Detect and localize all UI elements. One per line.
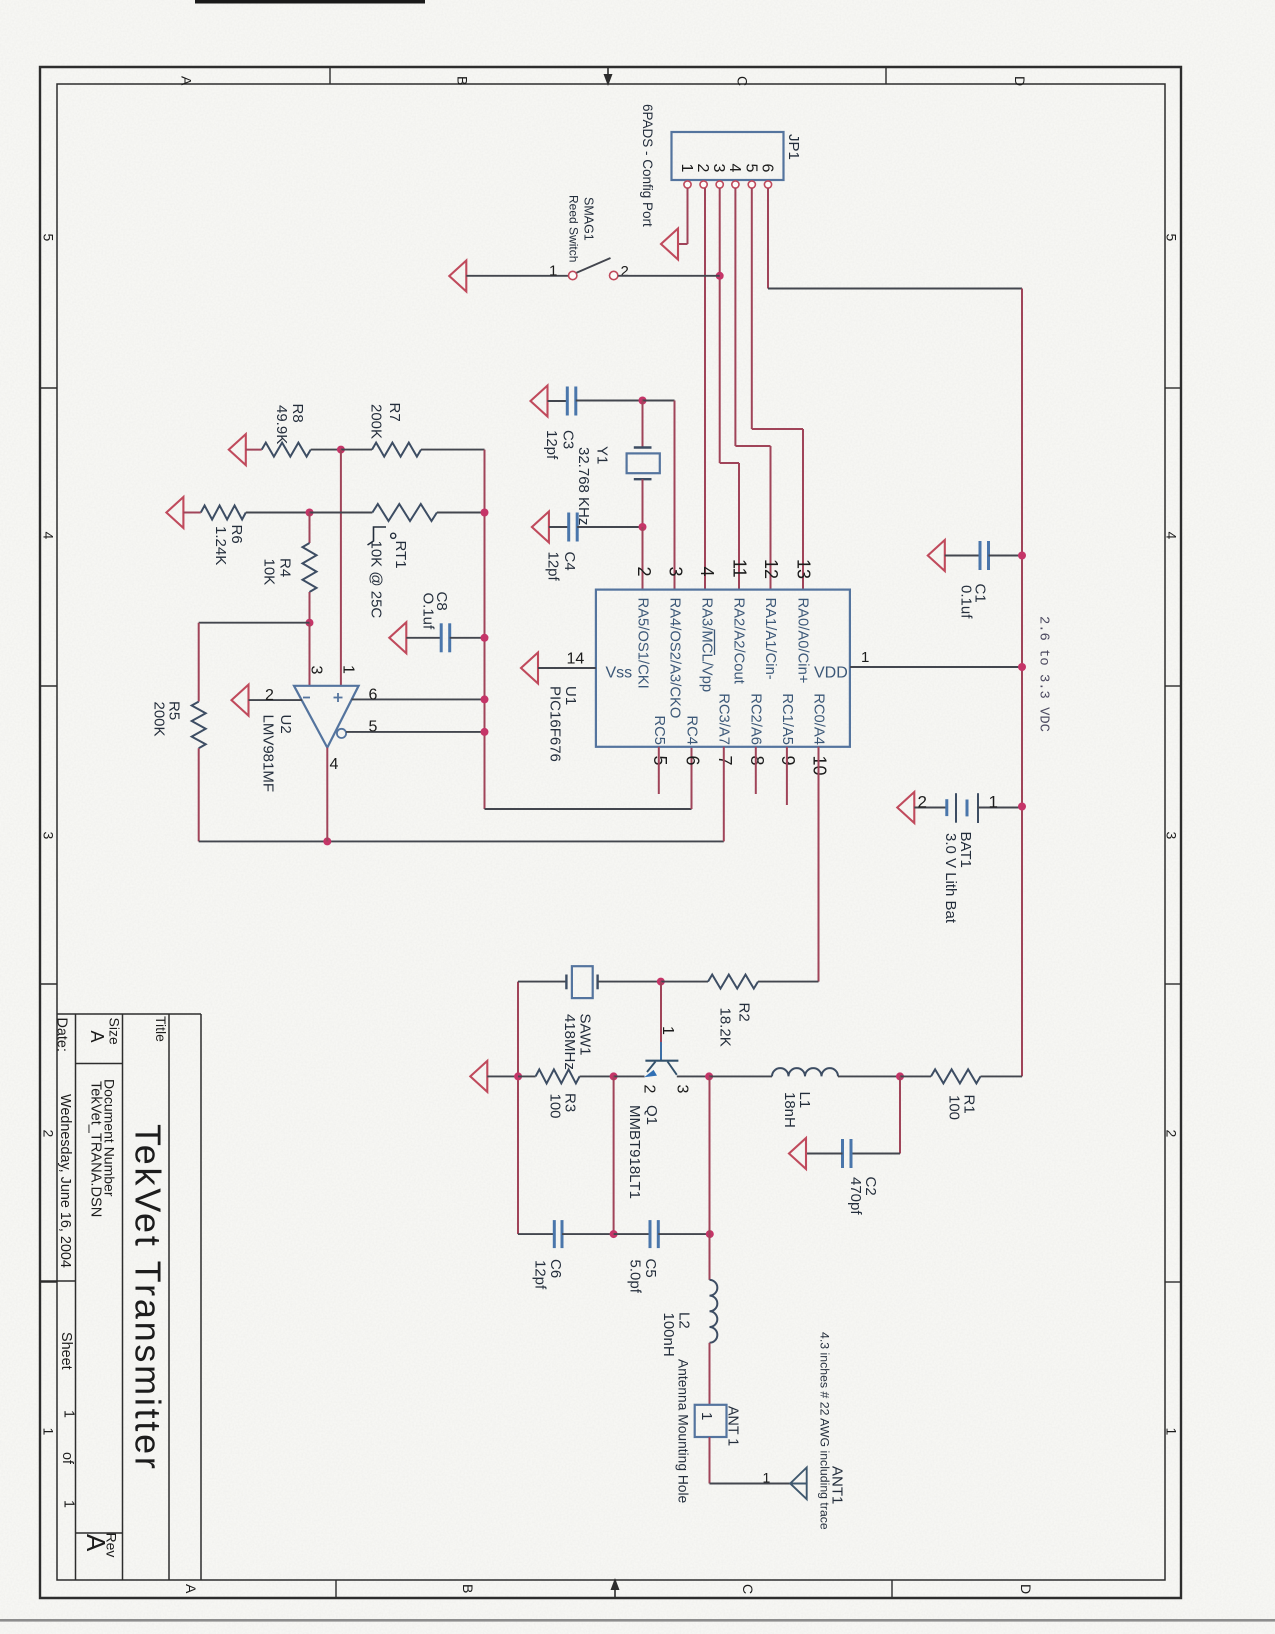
svg-text:C5: C5 (642, 1259, 659, 1278)
capacitor C4 12pf (549, 526, 569, 528)
svg-text:RC4: RC4 (684, 715, 700, 745)
resistor R7 200K (341, 449, 372, 451)
svg-text:100: 100 (946, 1095, 963, 1120)
ground U2 pin2 (232, 685, 249, 716)
svg-text:3.0 V Lith Bat: 3.0 V Lith Bat (942, 833, 959, 924)
node C8 on rail (481, 634, 489, 642)
svg-text:5: 5 (369, 719, 378, 736)
svg-text:2: 2 (694, 164, 711, 173)
svg-text:4.3 inches # 22 AWG including: 4.3 inches # 22 AWG including trace (818, 1332, 832, 1530)
capacitor C6 12pf (518, 1233, 554, 1235)
svg-text:5: 5 (1164, 234, 1180, 242)
svg-text:R2: R2 (736, 1003, 753, 1022)
capacitor C5 5.0pf (614, 1233, 650, 1235)
op-amp U2 LMV981MF (294, 686, 359, 748)
wire C4 node to U1 pin2 (642, 527, 644, 590)
svg-text:18.2K: 18.2K (717, 1008, 734, 1047)
svg-text:R6: R6 (228, 525, 245, 544)
svg-text:D: D (1012, 76, 1028, 86)
wire JP1 pin4 to U1 pin12 (734, 188, 736, 446)
node reed switch / JP1 pin3 junction (716, 272, 724, 280)
U1 pin8 stub (755, 747, 757, 794)
svg-text:1: 1 (678, 164, 695, 173)
node ground/SAW left rail (514, 1072, 522, 1080)
wire node to Q1 emitter (614, 1075, 645, 1077)
node Y1 bottom / C4 (639, 523, 647, 531)
wire feedback bottom to U1 pin7 (199, 840, 724, 842)
ground C8 (389, 622, 406, 653)
svg-text:12: 12 (761, 559, 781, 579)
svg-text:5: 5 (743, 164, 760, 173)
svg-text:3: 3 (710, 164, 727, 173)
resistor R1 100 (900, 1075, 931, 1077)
svg-text:10K @ 25C: 10K @ 25C (368, 541, 385, 619)
svg-text:RA1/A1/Cin-: RA1/A1/Cin- (762, 598, 778, 680)
svg-text:1: 1 (763, 1470, 771, 1486)
svg-text:2: 2 (621, 263, 629, 280)
svg-text:1: 1 (340, 665, 357, 674)
wire rail to U1 pin6 (RC4) (485, 808, 692, 810)
svg-text:6: 6 (759, 164, 776, 173)
resistor R6 1.24K (183, 512, 200, 514)
wire analog rail x485 (484, 450, 486, 809)
svg-text:ANT 1: ANT 1 (725, 1406, 741, 1446)
svg-text:A: A (179, 76, 195, 86)
svg-text:470pf: 470pf (847, 1177, 864, 1215)
wire U2 pin2 (249, 699, 303, 701)
svg-text:3: 3 (1164, 832, 1180, 840)
bottom alignment arrow (611, 1578, 620, 1590)
title block grid (40, 1014, 201, 1580)
svg-text:A: A (81, 1534, 111, 1552)
svg-text:1: 1 (61, 1500, 77, 1508)
svg-text:2: 2 (41, 1130, 57, 1138)
svg-text:A: A (87, 1031, 107, 1043)
ground C1 (928, 540, 945, 571)
capacitor C3 12pf (548, 400, 568, 402)
wire JP1 pin6 to VDD rail (767, 188, 769, 289)
wire ground to SMAG1 pin1 (466, 275, 568, 277)
svg-text:1: 1 (698, 1412, 715, 1420)
svg-text:418MHz: 418MHz (561, 1014, 578, 1070)
svg-text:B: B (460, 1584, 476, 1593)
ground JP1 pin1 (661, 229, 678, 260)
svg-text:1: 1 (659, 1026, 676, 1035)
svg-text:1: 1 (41, 1428, 57, 1436)
switch SMAG1 reed switch (569, 271, 577, 279)
wire node to U2 pin3 (309, 623, 311, 686)
IC U1 PIC16F676 (596, 590, 850, 747)
wire JP1 pin3 to U1 pin11 (719, 188, 721, 463)
svg-text:RC1/A5: RC1/A5 (779, 693, 795, 745)
svg-text:L2: L2 (676, 1312, 693, 1329)
wire SMAG1 pin2 to JP1 pin3 net (618, 275, 720, 277)
svg-text:MMBT918LT1: MMBT918LT1 (626, 1105, 643, 1199)
wire Vss pin14 (538, 667, 596, 669)
antenna pad ANT 1 (695, 1405, 727, 1437)
node U2 pin5 on rail (481, 728, 489, 736)
svg-text:RC3/A7: RC3/A7 (716, 693, 732, 745)
svg-text:RC5: RC5 (651, 715, 667, 745)
svg-text:Y1: Y1 (594, 446, 611, 464)
capacitor C8 O.1uf (406, 637, 441, 639)
svg-text:9: 9 (778, 756, 798, 766)
svg-text:R8: R8 (289, 404, 306, 423)
svg-text:5: 5 (650, 756, 670, 766)
node BAT1 on rail (1018, 803, 1026, 811)
svg-text:Title: Title (153, 1016, 169, 1042)
svg-text:C6: C6 (547, 1259, 564, 1278)
wire U2 pin4 (326, 748, 328, 842)
wire JP1 pin5 to U1 pin13 (751, 188, 753, 429)
ground Vss pin14 (521, 653, 538, 684)
svg-text:5: 5 (41, 234, 57, 242)
svg-text:2: 2 (641, 1085, 658, 1094)
svg-text:2.6 to 3.3 VDC: 2.6 to 3.3 VDC (1036, 616, 1051, 732)
wire VDD pin1 to rail (850, 666, 1022, 668)
svg-text:R4: R4 (277, 558, 294, 577)
svg-text:U1: U1 (562, 686, 579, 705)
svg-text:12pf: 12pf (543, 430, 560, 460)
svg-text:3: 3 (674, 1085, 691, 1094)
svg-text:Q1: Q1 (643, 1105, 660, 1125)
wire Q1 collector to L1 node (677, 1075, 709, 1077)
svg-text:of: of (59, 1452, 75, 1465)
svg-text:C3: C3 (560, 430, 577, 449)
svg-text:1.24K: 1.24K (212, 526, 229, 565)
svg-text:100: 100 (547, 1094, 564, 1119)
U1 pin10 wire to R2 (818, 747, 820, 982)
svg-text:4: 4 (726, 164, 743, 173)
ground C2 (789, 1138, 806, 1169)
U1 pin9 stub (786, 747, 788, 805)
svg-text:6: 6 (683, 756, 703, 766)
U1 pin7 wire to feedback (723, 747, 725, 842)
svg-text:49.9K: 49.9K (273, 405, 290, 444)
svg-text:Date:: Date: (54, 1018, 70, 1052)
svg-text:RA4/OS2/A3/CKO: RA4/OS2/A3/CKO (667, 598, 683, 719)
ground R8 (229, 434, 246, 465)
node C6/C5 (610, 1230, 618, 1238)
node C3 / Y1 top (639, 397, 647, 405)
wire JP1 pin1 to ground (687, 188, 689, 244)
svg-text:200K: 200K (368, 404, 385, 439)
svg-text:LMV981MF: LMV981MF (260, 715, 277, 793)
svg-text:4: 4 (697, 567, 717, 577)
capacitor C1 0.1uf (945, 555, 980, 557)
svg-text:0.1uf: 0.1uf (958, 585, 975, 619)
svg-text:6: 6 (369, 687, 378, 704)
svg-text:TekVet_TRANA.DSN: TekVet_TRANA.DSN (88, 1081, 104, 1217)
svg-text:4: 4 (1164, 532, 1180, 540)
node R8/R7/U2 pin1 (337, 446, 345, 454)
svg-text:10K: 10K (261, 559, 278, 586)
svg-text:RT1: RT1 (392, 541, 409, 569)
svg-text:Vss: Vss (606, 665, 633, 682)
svg-text:2: 2 (634, 567, 654, 577)
node C1 on rail (1018, 552, 1026, 560)
transistor Q1 MMBT918LT1 (660, 982, 662, 1042)
svg-text:8: 8 (747, 756, 767, 766)
svg-text:3: 3 (308, 666, 325, 675)
svg-text:4: 4 (330, 756, 339, 773)
svg-text:PIC16F676: PIC16F676 (547, 686, 564, 762)
svg-text:5.0pf: 5.0pf (627, 1260, 644, 1294)
svg-text:1: 1 (549, 263, 557, 280)
battery BAT1 3.0 V Lith Bat (914, 807, 947, 809)
resistor R3 100 (518, 1075, 536, 1077)
svg-text:Antenna Mounting Hole: Antenna Mounting Hole (676, 1359, 691, 1504)
node R3/Q1 emitter (610, 1072, 618, 1080)
connector JP1 (672, 132, 784, 180)
top alignment arrow (604, 74, 613, 86)
svg-text:1: 1 (1164, 1428, 1180, 1436)
capacitor C2 470pf (899, 1076, 901, 1153)
svg-text:R7: R7 (386, 403, 403, 422)
svg-text:4: 4 (41, 532, 57, 540)
svg-text:C: C (735, 76, 751, 86)
svg-text:3: 3 (666, 567, 686, 577)
node U2 pin6 on rail (481, 695, 489, 703)
svg-text:RA2/A2/Cout: RA2/A2/Cout (731, 598, 747, 684)
inductor L1 18nH (709, 1075, 772, 1077)
node U2 pin4 / feedback (323, 837, 331, 845)
thermistor RT1 10K @ 25C (310, 512, 373, 514)
wire ANT pad to ground (709, 1437, 711, 1484)
node L1/R1/C2 (896, 1072, 904, 1080)
node RT1 right on rail (481, 509, 489, 517)
resistor R5 200K (198, 623, 200, 702)
U1 RA3 MCL overline (714, 630, 716, 656)
ground BAT1 (897, 792, 914, 823)
svg-text:B: B (455, 76, 471, 85)
svg-text:1: 1 (61, 1410, 77, 1418)
wire feedback top (199, 622, 310, 624)
svg-text:6PADS - Config Port: 6PADS - Config Port (640, 104, 655, 227)
svg-text:14: 14 (567, 651, 585, 668)
ground C4 (532, 512, 549, 543)
svg-text:SMAG1: SMAG1 (582, 197, 596, 241)
svg-text:JP1: JP1 (785, 134, 802, 160)
ground SMAG1 (449, 261, 466, 292)
svg-text:RA5/OS1/CKI: RA5/OS1/CKI (635, 598, 651, 689)
svg-text:C: C (740, 1584, 756, 1594)
node R6/R4/RT1 (306, 509, 314, 517)
ground ANT1 (dark) (790, 1468, 807, 1500)
node VDD on rail (1018, 663, 1026, 671)
wire JP1 pin2 to U1 pin4 (704, 188, 706, 590)
resistor R2 18.2K (661, 981, 708, 983)
wire U2 pin6 (352, 698, 485, 700)
ground C3 (531, 386, 548, 417)
wire ground to node (487, 1075, 518, 1077)
sheet border inner frame (57, 84, 1165, 1580)
svg-text:13: 13 (794, 559, 814, 579)
crystal Y1 32.768 KHz (642, 401, 644, 448)
wire R3 node down (613, 1076, 615, 1234)
svg-text:O.1uf: O.1uf (420, 593, 437, 631)
resistor R8 49.9K (246, 449, 262, 451)
svg-text:18nH: 18nH (781, 1092, 798, 1128)
node SAW1/R2/Q1 base (657, 978, 665, 986)
svg-text:TekVet Transmitter: TekVet Transmitter (128, 1124, 169, 1472)
svg-text:2: 2 (265, 687, 274, 704)
svg-text:D: D (1018, 1584, 1034, 1594)
ground R6 (166, 497, 183, 528)
svg-text:1: 1 (861, 649, 869, 666)
SAW resonator SAW1 418MHz (565, 975, 567, 990)
svg-text:12pf: 12pf (545, 552, 562, 582)
JP1 pin circles (684, 181, 691, 188)
svg-text:RC0/A4: RC0/A4 (811, 693, 827, 745)
svg-text:Size: Size (107, 1018, 123, 1045)
node C5/L2 (706, 1230, 714, 1238)
svg-text:U2: U2 (277, 715, 294, 734)
svg-text:C4: C4 (561, 552, 578, 571)
svg-text:2: 2 (918, 793, 927, 812)
U1 pin5 stub (658, 747, 660, 794)
svg-text:7: 7 (715, 756, 735, 766)
node R4 bottom / feedback (306, 619, 314, 627)
ground R3 row (470, 1061, 487, 1092)
svg-text:Wednesday, June 16, 2004: Wednesday, June 16, 2004 (57, 1094, 73, 1268)
inductor L2 100nH (709, 1234, 711, 1280)
node Q1 collector (705, 1072, 713, 1080)
wire VDD rail vertical (1021, 289, 1023, 1077)
wire C3 node to U1 pin3 (643, 400, 675, 402)
svg-text:11: 11 (730, 559, 750, 578)
svg-text:A: A (183, 1584, 199, 1594)
wire Q1 collector to L2 (709, 1076, 711, 1234)
svg-text:3: 3 (41, 832, 57, 840)
svg-text:Sheet: Sheet (58, 1332, 74, 1370)
svg-text:RA3/MCL/Vpp: RA3/MCL/Vpp (699, 598, 715, 693)
svg-text:200K: 200K (151, 702, 168, 737)
svg-text:Reed Switch: Reed Switch (567, 195, 581, 262)
svg-text:100nH: 100nH (660, 1313, 677, 1357)
svg-text:1: 1 (989, 793, 998, 812)
svg-text:SAW1: SAW1 (577, 1014, 594, 1056)
U2 pin5 bubble and wire (337, 729, 346, 738)
svg-text:12pf: 12pf (532, 1260, 549, 1290)
svg-text:RC2/A6: RC2/A6 (748, 693, 764, 745)
svg-text:RA0/A0/Cin+: RA0/A0/Cin+ (795, 598, 811, 684)
wire SAW row left corner (517, 982, 519, 1235)
svg-text:VDD: VDD (814, 665, 848, 682)
wire node to U2 pin1 (340, 450, 342, 686)
svg-text:2: 2 (1164, 1130, 1180, 1138)
resistor R4 10K (309, 513, 311, 544)
